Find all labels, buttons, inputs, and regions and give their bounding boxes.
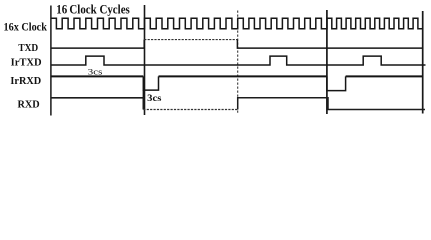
wire 16x clock waveform <box>51 18 423 29</box>
wire IrTXD waveform <box>51 56 426 65</box>
svg-text:16x Clock: 16x Clock <box>4 22 48 34</box>
node boundary line x1 <box>144 5 146 115</box>
svg-text:TXD: TXD <box>18 43 38 54</box>
node boundary line x0 <box>50 6 52 116</box>
node boundary line x3 <box>326 10 328 114</box>
node boundary line x4 (right end) <box>422 11 424 114</box>
wire RXD high bit1 and fall <box>51 98 144 110</box>
svg-text:RXD: RXD <box>18 100 40 111</box>
svg-text:IrRXD: IrRXD <box>10 76 41 87</box>
wire IrRXD notch 2 <box>327 76 346 90</box>
node boundary line x2 (dashed) <box>237 11 239 114</box>
svg-text:IrTXD: IrTXD <box>11 58 42 69</box>
svg-text:3cs: 3cs <box>147 93 162 103</box>
wire RXD low bit2 (light scan) <box>143 109 237 111</box>
wire IrRXD high segment 2 <box>159 75 327 77</box>
wire TXD high bit2 (light scan) <box>144 39 237 41</box>
svg-text:16 Clock Cycles: 16 Clock Cycles <box>56 3 130 17</box>
wire RXD rise high bit3 fall low bit4 <box>238 98 425 110</box>
svg-text:3cs: 3cs <box>88 67 103 77</box>
wire IrRXD high segment 3 <box>346 75 423 77</box>
wire TXD low bit1 and rise <box>51 40 145 49</box>
wire TXD fall and low bits 3-4 <box>237 40 422 49</box>
wire IrRXD high segment 1 <box>51 75 144 77</box>
wire vertical connector at notch1 down to RXD <box>142 90 144 98</box>
wire IrRXD notch 1 <box>143 76 158 90</box>
